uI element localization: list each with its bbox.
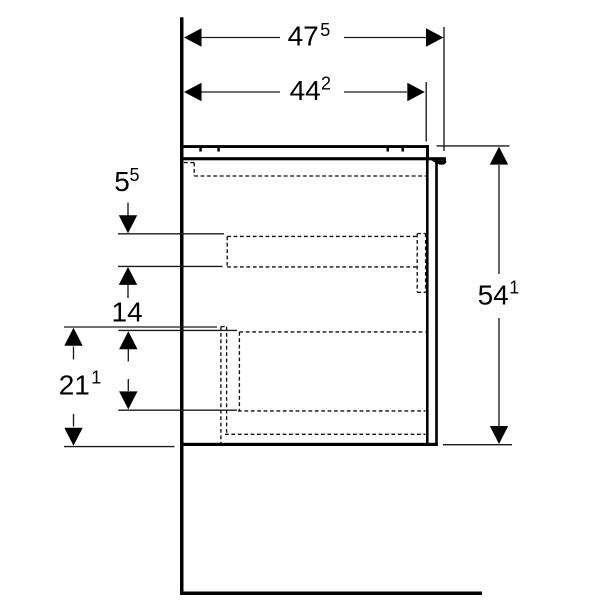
svg-text:1: 1	[509, 277, 519, 297]
svg-text:5: 5	[114, 166, 130, 197]
svg-text:5: 5	[129, 165, 139, 185]
svg-text:1: 1	[91, 367, 101, 387]
svg-text:44: 44	[290, 75, 321, 106]
svg-text:5: 5	[320, 20, 330, 40]
svg-text:2: 2	[321, 73, 331, 93]
svg-text:14: 14	[112, 297, 143, 328]
svg-text:47: 47	[288, 20, 319, 51]
svg-text:21: 21	[59, 369, 90, 400]
svg-text:54: 54	[478, 280, 509, 311]
